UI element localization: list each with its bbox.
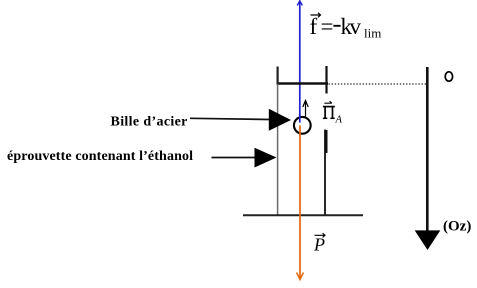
label f = -kv_lim <box>310 13 382 41</box>
svg-text:Bille d’acier: Bille d’acier <box>111 115 188 130</box>
steel ball <box>294 117 311 134</box>
test tube right wall lower segment <box>325 130 326 216</box>
svg-text:A: A <box>335 115 343 126</box>
svg-text:(Oz): (Oz) <box>443 219 471 235</box>
leader arrow to ball <box>190 109 291 131</box>
label P (weight vector) <box>313 233 325 254</box>
label O (origin) <box>445 72 452 81</box>
label Pi_A <box>323 101 343 125</box>
test tube left wall <box>277 67 279 216</box>
axis Oz line <box>426 67 429 231</box>
svg-text:lim: lim <box>364 26 381 41</box>
buoyancy arrow Pi_A (small, upward) <box>303 101 308 117</box>
svg-text:v: v <box>350 14 362 39</box>
blue line through ball <box>299 113 301 123</box>
svg-text:éprouvette contenant l’éthanol: éprouvette contenant l’éthanol <box>7 149 193 164</box>
friction force arrow f (blue, upward) <box>297 1 302 123</box>
test tube liquid surface line <box>277 82 329 84</box>
axis Oz arrowhead <box>415 230 441 250</box>
leader arrow to tube wall <box>212 148 277 168</box>
svg-text:=: = <box>321 14 334 39</box>
test tube right wall upper segment <box>325 66 327 94</box>
weight arrow P (orange, downward) <box>297 125 304 279</box>
tube base line <box>243 214 363 216</box>
svg-text:f: f <box>310 14 318 39</box>
dotted level line to axis <box>329 83 427 85</box>
